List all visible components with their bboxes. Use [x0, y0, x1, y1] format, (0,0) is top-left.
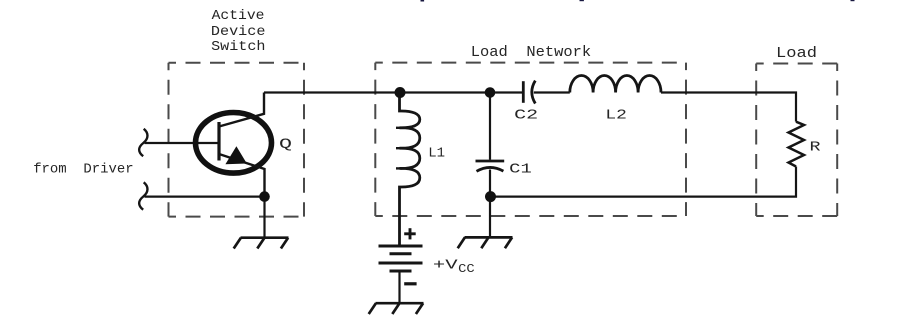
wire C2 to L2	[534, 91, 570, 93]
battery Vcc plate 1 long	[379, 245, 423, 248]
wire battery to ground	[398, 271, 400, 303]
svg-text:C2: C2	[514, 108, 538, 124]
junction node C1 bottom	[485, 191, 496, 202]
wire input break squiggle top	[139, 129, 147, 156]
capacitor C1 bottom curved plate	[477, 167, 504, 171]
wire base lead from driver	[145, 142, 218, 144]
svg-text:CC: CC	[458, 263, 475, 276]
capacitor C2 right curved plate	[532, 81, 536, 104]
junction node C1 top	[485, 87, 496, 98]
transistor Q collector diagonal	[219, 93, 264, 127]
junction node L1 top	[395, 87, 406, 98]
title Active Device Switch	[211, 8, 266, 55]
svg-text:Device: Device	[211, 24, 266, 40]
svg-text:Switch: Switch	[211, 39, 265, 55]
transistor Q circle	[196, 113, 272, 174]
svg-text:C1: C1	[509, 161, 532, 177]
inductor L1 dip nubs	[396, 128, 402, 169]
wire input break squiggle bottom	[139, 182, 147, 209]
capacitor C2 left plate	[522, 81, 525, 103]
svg-text:Q: Q	[279, 137, 292, 153]
transistor Q emitter diagonal	[219, 154, 265, 197]
battery Vcc plate 2 short	[390, 252, 412, 255]
label +Vcc	[433, 257, 475, 275]
battery Vcc plate 3 long	[379, 262, 423, 265]
dashed box Load Network	[375, 63, 686, 216]
svg-text:L1: L1	[428, 146, 445, 162]
capacitor C1 top plate	[476, 160, 505, 163]
wire bottom driver lead	[145, 196, 265, 198]
battery plus sign	[404, 228, 416, 239]
inductor L2	[570, 75, 661, 92]
wire top rail	[264, 91, 523, 93]
capacitor C1 top lead	[489, 93, 491, 160]
inductor L1	[400, 93, 420, 247]
battery Vcc plate 4 short	[390, 270, 412, 273]
ground below C1	[458, 237, 513, 248]
svg-text:from Driver: from Driver	[33, 161, 133, 177]
wire R bottom to rail	[491, 167, 797, 197]
svg-text:Active: Active	[212, 8, 265, 24]
svg-text:Load Network: Load Network	[471, 44, 591, 61]
ground below battery	[369, 303, 424, 314]
resistor R zigzag	[789, 122, 805, 167]
svg-text:L2: L2	[605, 108, 627, 124]
svg-text:R: R	[810, 139, 822, 155]
svg-text:+V: +V	[433, 257, 459, 273]
battery minus sign	[404, 282, 416, 285]
capacitor C1 bottom lead	[489, 170, 491, 238]
wire L2 to load	[661, 93, 796, 122]
wire emitter junction to ground	[263, 197, 265, 238]
transistor Q emitter arrow	[225, 146, 246, 164]
junction node emitter	[259, 191, 270, 202]
artifact cropped blue rule at top edge	[421, 0, 855, 2]
svg-text:Load: Load	[776, 45, 817, 62]
transistor Q base bar	[217, 122, 220, 161]
dashed box Active Device Switch	[169, 63, 305, 217]
ground below emitter	[234, 238, 289, 249]
dashed box Load	[756, 64, 837, 217]
